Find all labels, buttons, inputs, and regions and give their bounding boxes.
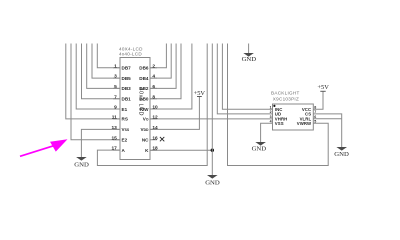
svg-text:4x40-LCD: 4x40-LCD <box>119 51 142 56</box>
wire Vss LCD to ground <box>81 129 120 157</box>
LCD1 pin stubs right <box>150 68 157 150</box>
svg-text:16: 16 <box>152 135 158 141</box>
wire E2 to top <box>71 44 120 140</box>
wire RS to top <box>66 44 120 119</box>
svg-text:GND: GND <box>74 161 89 168</box>
svg-text:E1: E1 <box>122 107 128 112</box>
ground GND at U1 VSS <box>252 142 267 153</box>
svg-text:13: 13 <box>111 125 117 131</box>
wire VL/RL to ground riser <box>313 118 341 120</box>
svg-text:VDD: VDD <box>141 127 150 132</box>
svg-text:+5V: +5V <box>317 84 329 91</box>
wire DB7 to top <box>97 44 120 68</box>
svg-text:DB2: DB2 <box>139 86 149 91</box>
svg-text:10: 10 <box>152 105 158 111</box>
wire DB5 to top <box>92 44 120 79</box>
svg-text:2: 2 <box>270 110 272 114</box>
svg-text:GND: GND <box>252 146 267 153</box>
svg-text:NC: NC <box>142 138 149 143</box>
svg-text:X9C103PIZ: X9C103PIZ <box>273 97 299 102</box>
svg-text:DB1: DB1 <box>122 97 132 102</box>
svg-text:+5V: +5V <box>194 90 206 97</box>
wire U/D riser to U1 <box>217 44 272 114</box>
LCD1 pin stubs left <box>113 68 120 150</box>
svg-text:VWRW: VWRW <box>297 121 312 126</box>
svg-text:1: 1 <box>114 63 117 69</box>
svg-text:DB7: DB7 <box>122 66 132 71</box>
backlight controller U1 X9C103PIZ body <box>273 104 314 130</box>
svg-text:GND: GND <box>334 151 349 158</box>
wire Vo to VH/RH of U1 <box>150 118 273 120</box>
svg-text:RS: RS <box>122 117 128 122</box>
svg-text:VSS: VSS <box>275 121 284 126</box>
ground GND at LCD Vss <box>74 157 89 168</box>
svg-text:DB4: DB4 <box>139 76 149 81</box>
svg-text:9: 9 <box>114 105 117 111</box>
wire GND riser from top through K junction <box>211 44 213 176</box>
svg-text:18: 18 <box>152 146 158 152</box>
wire DB3 to top <box>87 44 120 89</box>
svg-text:6: 6 <box>152 84 155 90</box>
wire DB1 to top <box>82 44 121 99</box>
ground GND bottom center <box>205 175 220 186</box>
svg-text:11: 11 <box>112 115 117 121</box>
wire VW/RW return riser <box>228 44 329 166</box>
svg-text:14: 14 <box>152 125 158 131</box>
wire Vdd to +5V <box>150 97 199 130</box>
svg-text:17: 17 <box>111 146 117 152</box>
svg-text:DB6: DB6 <box>139 66 149 71</box>
wire E1 to top <box>76 44 120 110</box>
wire K pin to ground net <box>150 149 212 151</box>
svg-text:12: 12 <box>152 115 158 121</box>
power +5V terminal near LCD <box>194 90 206 97</box>
wire DB4 to top <box>150 44 171 79</box>
U1 pin-1 marker dot <box>273 105 275 107</box>
svg-text:VSS: VSS <box>122 127 130 132</box>
wire INC riser to U1 <box>222 44 272 110</box>
svg-text:BACKLIGHT: BACKLIGHT <box>271 91 300 96</box>
svg-text:DB3: DB3 <box>122 86 132 91</box>
wire A pin to riser <box>97 44 207 166</box>
svg-text:5: 5 <box>114 84 117 90</box>
svg-text:R/W: R/W <box>140 107 150 112</box>
wire DB6 to top <box>150 44 166 68</box>
svg-text:2: 2 <box>152 63 155 69</box>
svg-text:GND: GND <box>242 56 257 63</box>
svg-text:8: 8 <box>152 94 155 100</box>
wire DB0 to top <box>150 44 181 99</box>
svg-text:E2: E2 <box>122 138 128 143</box>
svg-text:VO: VO <box>143 117 149 122</box>
wire DB2 to top <box>150 44 176 89</box>
svg-text:5: 5 <box>314 120 316 124</box>
annotation magenta arrow <box>20 139 68 156</box>
junction dot K/GND <box>211 149 214 152</box>
svg-text:DB5: DB5 <box>122 76 132 81</box>
svg-text:3: 3 <box>114 74 117 80</box>
svg-text:15: 15 <box>111 135 117 141</box>
power +5V terminal near U1 <box>317 84 329 91</box>
wire VSS U1 to ground <box>261 123 273 142</box>
svg-text:4: 4 <box>152 74 155 80</box>
svg-text:1: 1 <box>270 106 272 110</box>
wire R/W to top <box>150 44 192 110</box>
ground GND at right <box>334 147 349 158</box>
svg-text:7: 7 <box>114 94 117 100</box>
svg-text:DB0: DB0 <box>139 97 149 102</box>
wire VCC to +5V <box>313 91 323 109</box>
no-connect X on pin 16 NC <box>160 137 164 141</box>
ground GND top <box>242 53 257 63</box>
svg-text:3: 3 <box>270 115 272 119</box>
wire CS to ground riser <box>313 114 341 147</box>
LCD1 40x4 LCD body <box>120 58 150 160</box>
svg-text:GND: GND <box>205 179 220 186</box>
wire top GND stub <box>248 44 250 54</box>
